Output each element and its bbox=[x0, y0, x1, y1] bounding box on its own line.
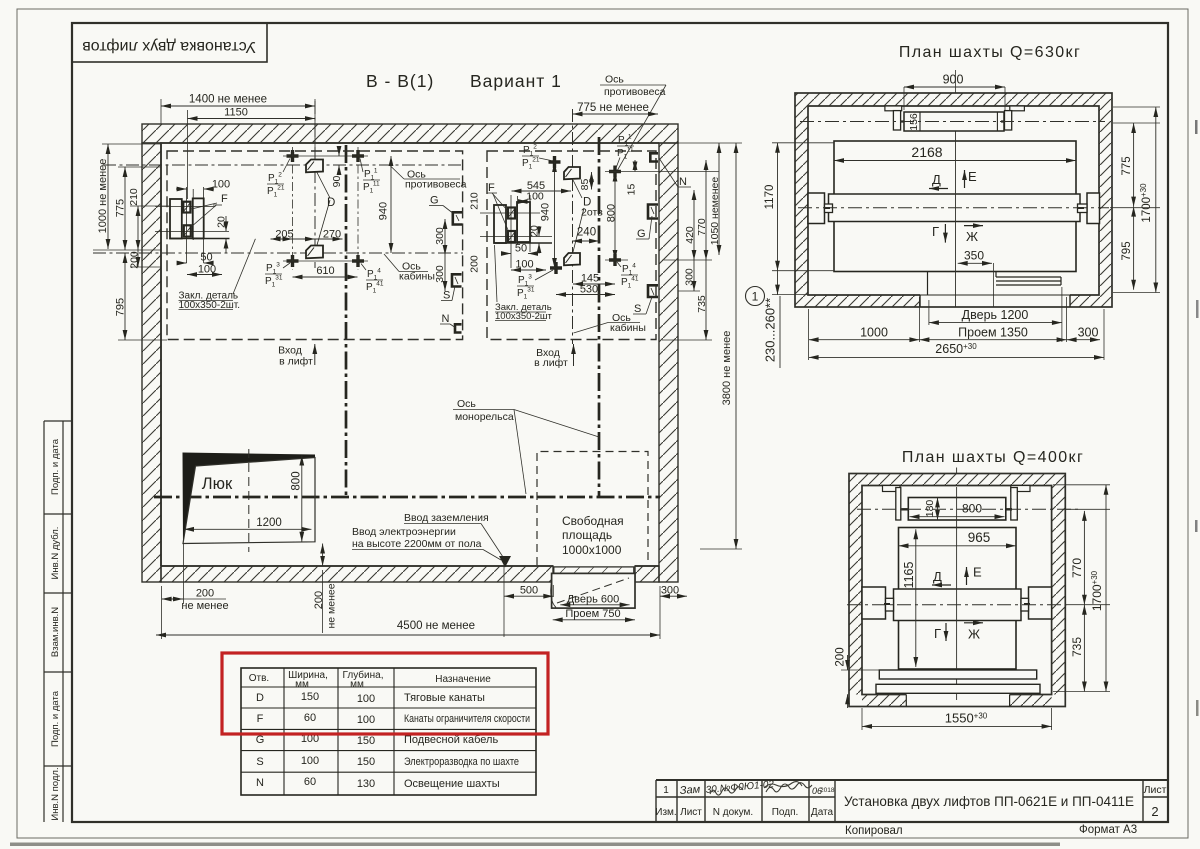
N G S hooks right wall bbox=[633, 153, 691, 315]
crossbeam plan400 bbox=[862, 587, 1052, 621]
dim 800 bbox=[301, 456, 303, 542]
counterweight axis (horizontal, left shaft) bbox=[103, 164, 463, 166]
dim 775 не менее bbox=[573, 113, 659, 115]
svg-text:2: 2 bbox=[1151, 804, 1158, 819]
svg-text:270: 270 bbox=[323, 229, 341, 241]
svg-text:G: G bbox=[256, 734, 265, 746]
svg-text:Ж: Ж bbox=[966, 229, 978, 244]
svg-text:1150: 1150 bbox=[224, 107, 248, 119]
svg-text:Отв.: Отв. bbox=[249, 673, 269, 684]
svg-text:210: 210 bbox=[469, 192, 481, 210]
scanner edge band bottom bbox=[10, 843, 1060, 847]
axis labels left shaft bbox=[384, 166, 467, 283]
svg-text:Проем 1350: Проем 1350 bbox=[958, 326, 1028, 340]
svg-text:795: 795 bbox=[1121, 241, 1133, 260]
svg-text:Ж: Ж bbox=[968, 627, 980, 642]
svg-text:Д: Д bbox=[933, 569, 942, 584]
svg-text:Подвесной кабель: Подвесной кабель bbox=[404, 734, 498, 746]
svg-text:200: 200 bbox=[469, 255, 481, 273]
svg-text:Назначение: Назначение bbox=[435, 674, 491, 685]
P anchor crosses left shaft bbox=[287, 150, 365, 267]
svg-text:1050 неменее: 1050 неменее bbox=[709, 177, 721, 246]
svg-text:20: 20 bbox=[529, 225, 541, 237]
bottom dims main bbox=[156, 563, 687, 639]
svg-text:Ось: Ось bbox=[457, 398, 476, 410]
top-left flipped title box bbox=[72, 23, 267, 62]
svg-text:500: 500 bbox=[520, 585, 538, 597]
svg-text:Ввод электроэнергии: Ввод электроэнергии bbox=[352, 526, 456, 538]
right dims plan630 bbox=[1110, 107, 1160, 293]
svg-text:в лифт: в лифт bbox=[279, 356, 313, 368]
svg-text:940: 940 bbox=[378, 202, 390, 220]
svg-text:Лист: Лист bbox=[680, 807, 702, 818]
svg-text:1000 не менее: 1000 не менее bbox=[97, 159, 109, 234]
P labels right shaft bbox=[517, 134, 639, 301]
svg-text:2168: 2168 bbox=[911, 144, 942, 160]
svg-text:210: 210 bbox=[128, 188, 140, 206]
svg-text:530: 530 bbox=[580, 284, 598, 296]
leaders to D label bbox=[317, 173, 330, 199]
svg-text:150: 150 bbox=[301, 691, 319, 703]
svg-text:G: G bbox=[430, 195, 439, 207]
anchor D rects left shaft bbox=[306, 160, 330, 259]
svg-text:100: 100 bbox=[198, 264, 216, 276]
title block texts bbox=[655, 784, 1166, 819]
svg-text:2отв: 2отв bbox=[581, 207, 603, 219]
counterweight axis line plan630 bbox=[800, 121, 1105, 123]
svg-text:900: 900 bbox=[943, 73, 964, 87]
lyuk outline bbox=[183, 458, 315, 544]
svg-text:Г: Г bbox=[932, 224, 939, 239]
ground/power inlet labels bbox=[352, 512, 511, 568]
inner room outline bbox=[161, 143, 659, 566]
svg-text:200: 200 bbox=[835, 647, 847, 666]
svg-text:Электроразводка по шахте: Электроразводка по шахте bbox=[404, 756, 519, 768]
svg-text:Вариант 1: Вариант 1 bbox=[470, 71, 562, 91]
svg-text:S: S bbox=[634, 303, 641, 315]
datum circle 1 bbox=[746, 287, 765, 306]
svg-text:1200: 1200 bbox=[256, 517, 282, 529]
svg-text:2018: 2018 bbox=[820, 787, 835, 794]
center vertical plan400 bbox=[956, 487, 958, 700]
svg-text:Подп. и дата: Подп. и дата bbox=[50, 438, 61, 495]
svg-text:Люк: Люк bbox=[202, 475, 233, 493]
left shaft dashed outline bbox=[167, 151, 463, 340]
LYUK hatch opening bbox=[183, 449, 323, 604]
counterweight axis plan400 bbox=[857, 508, 1081, 510]
svg-text:N докум.: N докум. bbox=[713, 807, 753, 818]
svg-text:Копировал: Копировал bbox=[845, 825, 903, 837]
svg-text:735: 735 bbox=[696, 295, 708, 313]
svg-text:Взам.инв.N: Взам.инв.N bbox=[50, 607, 61, 657]
svg-text:на высоте 2200мм от пола: на высоте 2200мм от пола bbox=[352, 538, 482, 550]
cabin axis line plan630 bbox=[798, 207, 1109, 209]
Вход в лифт labels bbox=[278, 344, 573, 369]
svg-text:795: 795 bbox=[115, 298, 127, 316]
svg-text:Инв.N подл.: Инв.N подл. bbox=[50, 767, 61, 820]
svg-text:F: F bbox=[488, 182, 495, 194]
svg-text:100: 100 bbox=[301, 755, 319, 767]
cabin axis plan400 bbox=[847, 604, 1067, 606]
right wall bbox=[659, 143, 678, 582]
svg-text:Д: Д bbox=[932, 172, 941, 187]
svg-text:100: 100 bbox=[526, 191, 544, 203]
cabin axis (horizontal, left shaft) bbox=[93, 252, 463, 254]
svg-text:Г: Г bbox=[934, 626, 941, 641]
title block frame bbox=[656, 780, 1168, 822]
svg-text:Установка двух лифтов ПП-0621Е: Установка двух лифтов ПП-0621Е и ПП-0411… bbox=[844, 793, 1134, 809]
bottom wall left part bbox=[161, 566, 553, 582]
svg-text:230...260**: 230...260** bbox=[763, 298, 778, 362]
svg-text:775 не менее: 775 не менее bbox=[577, 102, 649, 114]
svg-text:300: 300 bbox=[1078, 326, 1099, 340]
svg-text:мм: мм bbox=[295, 679, 309, 690]
svg-text:300: 300 bbox=[684, 268, 696, 286]
free area label bbox=[562, 514, 624, 557]
right dims plan400 bbox=[1053, 485, 1110, 692]
shaft walls plan630 bbox=[795, 93, 1112, 307]
PLAN630 bbox=[746, 44, 1161, 368]
svg-text:100: 100 bbox=[357, 714, 375, 726]
svg-text:1000: 1000 bbox=[860, 326, 888, 340]
left column stamp boxes bbox=[44, 421, 72, 822]
bottom door sill and leaf bbox=[551, 567, 635, 608]
top dimension 1400/1150 bbox=[161, 99, 315, 199]
monorail axis label bbox=[453, 398, 599, 494]
svg-text:60: 60 bbox=[304, 776, 316, 788]
svg-text:Тяговые канаты: Тяговые канаты bbox=[404, 692, 485, 704]
svg-text:800: 800 bbox=[962, 502, 982, 516]
svg-text:940: 940 bbox=[540, 203, 552, 221]
svg-text:130: 130 bbox=[357, 778, 375, 790]
svg-text:G: G bbox=[637, 228, 646, 240]
P crosses right shaft bbox=[549, 156, 622, 274]
handwritten row bbox=[679, 779, 834, 797]
svg-text:План шахты Q=400кг: План шахты Q=400кг bbox=[902, 449, 1084, 466]
svg-text:1000х1000: 1000х1000 bbox=[562, 543, 622, 557]
black wedge bbox=[183, 453, 316, 544]
lyuk vertical centerline bbox=[248, 449, 250, 552]
heavy axis vertical right bbox=[598, 137, 601, 497]
svg-text:965: 965 bbox=[968, 530, 991, 545]
svg-text:не менее: не менее bbox=[181, 600, 228, 612]
svg-text:в лифт: в лифт bbox=[534, 357, 568, 369]
svg-text:мм: мм bbox=[350, 679, 364, 690]
svg-text:Лист: Лист bbox=[1144, 784, 1167, 796]
axis vertical x=572.5 right shaft bbox=[572, 109, 574, 344]
MAIN_SECTION bbox=[93, 71, 742, 639]
dim 200 (lyuk to wall) bbox=[322, 544, 324, 567]
bolt axes bbox=[155, 205, 215, 207]
svg-text:противовеса: противовеса bbox=[604, 86, 666, 98]
svg-text:В - В(1): В - В(1) bbox=[366, 71, 434, 91]
svg-text:770: 770 bbox=[1070, 558, 1084, 578]
svg-text:N: N bbox=[679, 176, 687, 188]
svg-text:Подп. и дата: Подп. и дата bbox=[50, 690, 61, 747]
svg-text:1400 не менее: 1400 не менее bbox=[189, 94, 267, 106]
svg-text:Установка двух лифтов: Установка двух лифтов bbox=[82, 38, 256, 55]
dims right embedded bbox=[502, 191, 571, 270]
dims inside left shaft bbox=[271, 147, 392, 278]
svg-text:Освещение шахты: Освещение шахты bbox=[404, 778, 500, 790]
svg-text:противовеса: противовеса bbox=[405, 179, 467, 191]
svg-text:50: 50 bbox=[515, 243, 527, 255]
svg-text:15: 15 bbox=[626, 184, 638, 196]
P labels left shaft bbox=[265, 159, 384, 295]
dim 1165 bbox=[915, 529, 917, 667]
svg-text:монорельса: монорельса bbox=[455, 411, 514, 423]
anchor D rects right shaft bbox=[564, 167, 584, 265]
dim 965 bbox=[899, 545, 1017, 547]
svg-text:200: 200 bbox=[313, 591, 325, 609]
svg-text:775: 775 bbox=[115, 199, 127, 217]
counterweight axis label top right bbox=[600, 74, 666, 172]
svg-text:Ось: Ось bbox=[605, 74, 624, 86]
svg-text:не менее: не менее bbox=[326, 583, 338, 628]
svg-text:205: 205 bbox=[275, 229, 293, 241]
svg-text:3800 не менее: 3800 не менее bbox=[721, 331, 733, 406]
cabin plan400 bbox=[899, 528, 1017, 670]
free area dashed square bbox=[537, 452, 648, 566]
svg-text:D: D bbox=[327, 197, 335, 209]
svg-text:S: S bbox=[256, 756, 263, 768]
svg-text:150: 150 bbox=[357, 735, 375, 747]
center vertical thin line plan630 bbox=[955, 132, 957, 308]
machine room walls (hatched) bbox=[142, 124, 678, 582]
red highlight box bbox=[222, 653, 548, 734]
svg-text:Е: Е bbox=[973, 565, 982, 580]
svg-text:N: N bbox=[256, 777, 264, 789]
left dims plan630 bbox=[772, 143, 834, 295]
counterweight plan400 bbox=[883, 486, 1031, 521]
svg-text:Формат А3: Формат А3 bbox=[1079, 824, 1137, 836]
svg-text:Дата: Дата bbox=[811, 807, 834, 818]
dims of embedded plate left bbox=[176, 189, 255, 294]
svg-text:20: 20 bbox=[216, 216, 228, 228]
dim 200 plan400 bbox=[841, 655, 879, 708]
direction arrows plan400 bbox=[932, 565, 983, 642]
svg-text:1: 1 bbox=[663, 785, 669, 796]
svg-text:S: S bbox=[443, 290, 450, 302]
dim 1550 plan400 bbox=[862, 725, 1052, 727]
svg-text:Изм.: Изм. bbox=[655, 807, 676, 818]
connector/dim verticals right shaft bbox=[555, 160, 719, 295]
svg-text:Канаты ограничителя скорости: Канаты ограничителя скорости bbox=[404, 713, 530, 725]
svg-text:420: 420 bbox=[684, 226, 696, 244]
svg-text:180: 180 bbox=[924, 500, 936, 518]
heavy axis vertical left bbox=[345, 145, 348, 497]
leaders F bbox=[190, 203, 217, 209]
thin connector lines P rectangle left bbox=[283, 147, 368, 270]
svg-text:735: 735 bbox=[1070, 637, 1084, 657]
svg-text:Дверь 1200: Дверь 1200 bbox=[962, 308, 1029, 322]
dim 900 top plan630 bbox=[904, 86, 1005, 88]
svg-text:Дверь 600: Дверь 600 bbox=[567, 594, 620, 606]
svg-text:кабины: кабины bbox=[399, 271, 435, 283]
door sill plan630 bbox=[920, 272, 1070, 308]
right shaft dashed outline bbox=[487, 151, 656, 340]
PLAN400 bbox=[835, 449, 1111, 730]
svg-text:300: 300 bbox=[661, 585, 679, 597]
svg-text:770: 770 bbox=[696, 218, 708, 236]
bottom steps plan400 bbox=[876, 670, 1040, 707]
svg-text:4500 не менее: 4500 не менее bbox=[397, 620, 475, 632]
svg-text:Подп.: Подп. bbox=[772, 807, 799, 818]
svg-text:Зам: Зам bbox=[679, 784, 701, 797]
dim 2168 bbox=[834, 160, 1076, 162]
G S N hooks left shaft bbox=[429, 195, 462, 333]
svg-text:площадь: площадь bbox=[562, 528, 612, 542]
svg-text:Ввод заземления: Ввод заземления bbox=[404, 512, 489, 524]
svg-text:100: 100 bbox=[515, 259, 533, 271]
axis vertical x=315 left shaft bbox=[314, 101, 316, 268]
cabin axis label right shaft bbox=[574, 312, 646, 334]
svg-text:60: 60 bbox=[304, 712, 316, 724]
300/300 dims bbox=[444, 219, 446, 255]
svg-text:800: 800 bbox=[291, 471, 303, 490]
bottom wall right part bbox=[635, 566, 659, 582]
svg-text:300: 300 bbox=[434, 265, 446, 283]
svg-text:100: 100 bbox=[212, 179, 230, 191]
svg-text:200: 200 bbox=[196, 588, 214, 600]
direction arrows plan630 bbox=[929, 169, 983, 244]
svg-text:1170: 1170 bbox=[764, 185, 776, 210]
dim 350 bbox=[958, 262, 992, 264]
svg-text:100: 100 bbox=[357, 693, 375, 705]
svg-text:Е: Е bbox=[968, 169, 977, 184]
svg-text:План шахты Q=630кг: План шахты Q=630кг bbox=[899, 44, 1081, 61]
left wall bbox=[142, 143, 161, 582]
left stamp labels bbox=[50, 438, 61, 820]
svg-text:1: 1 bbox=[752, 290, 759, 304]
shaft walls plan400 bbox=[849, 468, 1065, 707]
svg-text:85: 85 bbox=[579, 179, 591, 191]
svg-text:D: D bbox=[256, 692, 264, 704]
svg-text:775: 775 bbox=[1121, 156, 1133, 175]
svg-text:90: 90 bbox=[331, 176, 343, 188]
right column dims bbox=[662, 143, 742, 549]
svg-text:Проем 750: Проем 750 bbox=[565, 608, 620, 620]
counterweight plan630 bbox=[885, 106, 1025, 131]
svg-text:Инв.N дубл.: Инв.N дубл. bbox=[50, 527, 61, 580]
embedded plate assembly right shaft bbox=[480, 195, 552, 268]
svg-text:300: 300 bbox=[434, 227, 446, 245]
svg-text:150: 150 bbox=[357, 756, 375, 768]
crossbeam plan630 bbox=[808, 193, 1100, 224]
dim 1200 bbox=[184, 528, 311, 530]
svg-text:Свободная: Свободная bbox=[562, 514, 624, 528]
svg-text:1165: 1165 bbox=[902, 562, 916, 589]
cabin plan630 bbox=[834, 141, 1076, 272]
leader закл деталь bbox=[233, 239, 255, 294]
svg-text:800: 800 bbox=[606, 204, 618, 222]
svg-text:F: F bbox=[257, 713, 264, 725]
svg-text:200: 200 bbox=[129, 251, 141, 269]
svg-text:N: N bbox=[442, 313, 450, 325]
svg-text:610: 610 bbox=[316, 265, 334, 277]
dims below plan630 bbox=[809, 287, 1104, 360]
svg-text:кабины: кабины bbox=[610, 322, 646, 334]
svg-text:50: 50 bbox=[200, 252, 212, 264]
svg-text:350: 350 bbox=[964, 249, 984, 263]
svg-text:F: F bbox=[221, 193, 228, 205]
svg-text:240: 240 bbox=[577, 227, 596, 239]
TABLE bbox=[241, 668, 536, 795]
heavy monorail axis horizontal bbox=[154, 496, 660, 499]
left column dims bbox=[93, 144, 170, 340]
embedded plate assembly left bbox=[155, 187, 230, 263]
top wall bbox=[142, 124, 678, 143]
